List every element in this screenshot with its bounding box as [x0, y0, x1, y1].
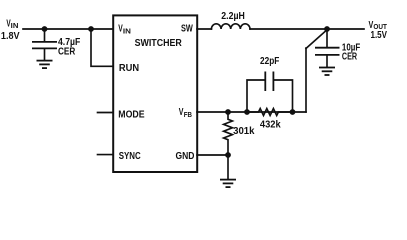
svg-text:SWITCHER: SWITCHER	[135, 38, 183, 49]
svg-text:GND: GND	[176, 151, 195, 162]
wire C2 bottom lead	[326, 56, 328, 67]
svg-text:432k: 432k	[260, 120, 281, 131]
node junction dot 22pF left	[244, 109, 250, 115]
svg-text:IN: IN	[123, 27, 131, 36]
pin stub MODE	[98, 112, 114, 114]
node VIN label	[1, 19, 20, 42]
inductor L1 2.2uH	[211, 24, 250, 29]
svg-text:SW: SW	[181, 24, 193, 35]
wire VIN input	[23, 28, 112, 30]
svg-text:CER: CER	[342, 52, 358, 63]
value label 10uF CER	[342, 42, 360, 62]
svg-text:22pF: 22pF	[260, 56, 279, 67]
node VOUT junction dot	[324, 26, 330, 32]
wire feedback vertical	[305, 48, 307, 112]
capacitor C2 10uF	[315, 48, 340, 55]
node junction dot C1 tap	[42, 26, 48, 32]
ground under GND pin	[220, 180, 236, 188]
node VOUT label	[369, 20, 388, 41]
ground under C2	[319, 68, 335, 76]
capacitor C1 4.7uF	[32, 42, 57, 49]
wire GND pin	[197, 154, 228, 156]
pin label VFB	[179, 107, 192, 119]
wire feedback diagonal from VOUT	[306, 30, 327, 49]
wire SW output	[197, 28, 211, 30]
node junction dot GND/301k	[225, 152, 231, 158]
wire GND down lead	[227, 155, 229, 179]
node junction dot RUN tap	[88, 26, 94, 32]
svg-text:IN: IN	[11, 21, 19, 30]
resistor R1 301k	[224, 112, 233, 155]
pin stub SYNC	[98, 154, 114, 156]
resistor R2 432k	[247, 109, 293, 116]
capacitor C3 22pF loop	[247, 80, 265, 112]
svg-text:RUN: RUN	[119, 63, 139, 74]
svg-text:FB: FB	[184, 110, 192, 119]
svg-text:MODE: MODE	[118, 109, 144, 120]
wire RUN branch	[91, 29, 112, 66]
wire VFB net	[197, 111, 306, 113]
node junction dot VFB/301k	[225, 109, 231, 115]
svg-text:CER: CER	[58, 46, 76, 57]
node junction dot 22pF right	[290, 109, 296, 115]
wire C2 top lead	[326, 29, 328, 47]
svg-text:301k: 301k	[233, 126, 255, 137]
svg-text:SYNC: SYNC	[119, 151, 141, 162]
wire L1 to VOUT	[250, 28, 364, 30]
op-amp U1 SWITCHER box	[113, 15, 197, 172]
svg-text:1.5V: 1.5V	[371, 30, 388, 41]
svg-text:2.2µH: 2.2µH	[221, 11, 245, 22]
wire C1 bottom lead	[44, 49, 46, 60]
ground under C1	[37, 61, 53, 69]
svg-text:1.8V: 1.8V	[1, 31, 20, 42]
value label 4.7uF CER	[58, 37, 80, 58]
wire C1 top lead	[44, 29, 46, 41]
pin label VIN	[118, 24, 131, 36]
